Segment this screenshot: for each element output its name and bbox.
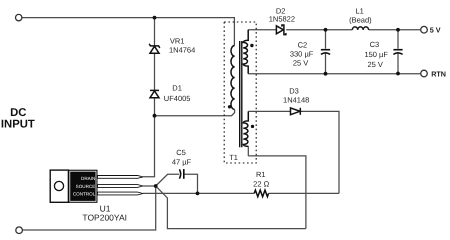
svg-text:25 V: 25 V [293,59,308,68]
svg-text:47 µF: 47 µF [172,158,192,167]
svg-text:D1: D1 [172,84,182,93]
svg-text:SOURCE: SOURCE [76,184,96,189]
svg-text:22 Ω: 22 Ω [253,179,269,188]
svg-text:L1: L1 [356,7,364,16]
svg-text:DRAIN: DRAIN [81,176,95,181]
svg-text:C3: C3 [370,40,380,49]
svg-text:1N4764: 1N4764 [169,45,195,54]
svg-text:TOP200YAI: TOP200YAI [82,212,127,222]
svg-text:RTN: RTN [431,70,446,79]
svg-text:(Bead): (Bead) [349,15,372,24]
svg-text:C2: C2 [298,41,308,50]
svg-text:1N4148: 1N4148 [283,96,309,105]
svg-text:VR1: VR1 [170,37,185,46]
svg-text:R1: R1 [256,170,266,179]
svg-text:UF4005: UF4005 [164,94,191,103]
svg-text:C5: C5 [176,148,186,157]
svg-text:CONTROL: CONTROL [73,192,96,197]
svg-text:1N5822: 1N5822 [269,15,295,24]
svg-text:25 V: 25 V [367,60,382,69]
svg-text:330 µF: 330 µF [290,49,314,58]
svg-text:T1: T1 [229,153,238,162]
svg-text:5 V: 5 V [430,25,441,34]
svg-text:150 µF: 150 µF [364,50,388,59]
svg-text:DC: DC [10,107,26,119]
svg-text:INPUT: INPUT [1,119,35,131]
svg-text:D3: D3 [289,87,299,96]
